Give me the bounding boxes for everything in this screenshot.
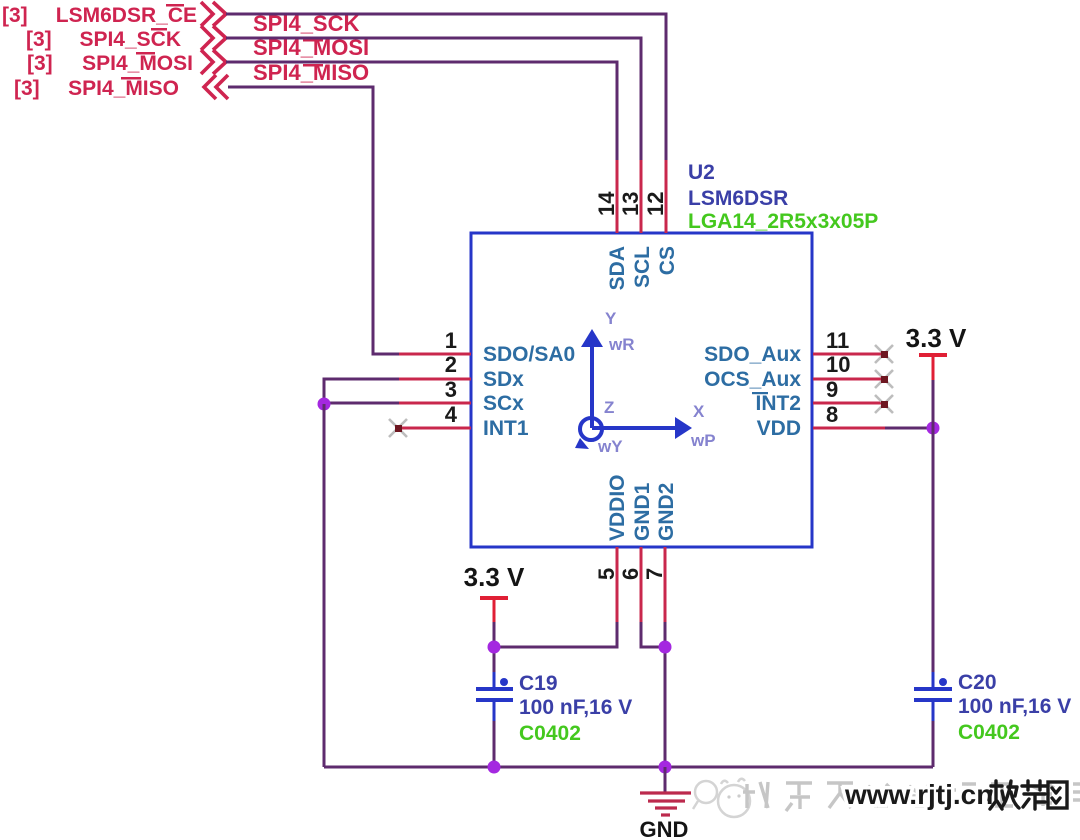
svg-text:6: 6 — [618, 568, 643, 580]
no-connect X pin 9 — [875, 395, 893, 413]
no-connect X pin 11 — [875, 345, 893, 363]
svg-text:INT2: INT2 — [755, 392, 801, 415]
svg-text:12: 12 — [643, 192, 668, 216]
svg-text:5: 5 — [594, 568, 619, 580]
wire SPI4_MOSI to pin 14 — [226, 62, 617, 160]
svg-text:GND2: GND2 — [655, 483, 678, 541]
svg-text:VDD: VDD — [757, 417, 801, 440]
wire bottom bus — [324, 766, 933, 769]
watermark glyph jian — [1022, 781, 1046, 809]
svg-text:9: 9 — [826, 377, 838, 402]
svg-text:[3]: [3] — [2, 4, 28, 27]
wire C20 bottom to bus — [932, 721, 935, 767]
wire SPI4_SCK to pin 13 — [226, 38, 641, 160]
wire pin6 GND1 down-right — [641, 622, 665, 647]
ground symbol — [640, 793, 691, 815]
svg-text:X: X — [693, 402, 705, 421]
watermark faint logo face — [693, 779, 750, 817]
svg-text:SDO/SA0: SDO/SA0 — [483, 343, 575, 366]
power 3.3V right stem — [932, 355, 935, 380]
junction dot VDDIO/3.3V/C19 — [488, 641, 501, 654]
svg-text:SDA: SDA — [606, 246, 629, 290]
svg-text:C0402: C0402 — [958, 721, 1020, 744]
ground stub — [664, 767, 667, 792]
pin 3 SCx stub — [399, 402, 471, 405]
wire pin7 GND2 down to bus — [664, 622, 667, 767]
pin 2 SDx stub — [399, 378, 471, 381]
svg-text:[3]: [3] — [27, 52, 53, 75]
svg-text:100 nF,16 V: 100 nF,16 V — [519, 696, 632, 719]
axis glyph Y arrow — [581, 329, 603, 428]
power 3.3V right bar — [919, 353, 947, 357]
pin 10 OCS_Aux stub — [813, 378, 884, 381]
wire pin5 VDDIO down-left — [494, 622, 617, 647]
wire SPI4_MISO to pin 1 — [228, 87, 400, 354]
pin 8 VDD stub — [813, 427, 885, 430]
pin 11 SDO_Aux stub — [813, 353, 884, 356]
no-connect X pin 10 — [875, 370, 893, 388]
pin 4 INT1 stub — [398, 427, 471, 430]
svg-text:13: 13 — [618, 192, 643, 216]
svg-text:U2: U2 — [688, 161, 715, 184]
svg-text:C20: C20 — [958, 671, 997, 694]
svg-text:7: 7 — [642, 568, 667, 580]
pin 13 SCL stub — [640, 160, 643, 233]
watermark faint gray chinese text — [743, 782, 1080, 811]
svg-text:14: 14 — [594, 191, 619, 216]
junction dot C19 ground — [488, 761, 501, 774]
svg-text:4: 4 — [445, 402, 458, 427]
svg-text:VDDIO: VDDIO — [606, 474, 629, 541]
svg-text:wP: wP — [690, 431, 716, 450]
watermark glyph ruan — [989, 781, 1019, 809]
svg-text:3.3 V: 3.3 V — [464, 562, 525, 592]
junction dot SDx/SCx — [318, 398, 331, 411]
svg-text:[3]: [3] — [14, 77, 40, 100]
no-connect X pin 4 — [389, 419, 407, 437]
wire pin3 SCx to junction — [324, 402, 399, 405]
capacitor C19 — [476, 672, 513, 721]
svg-text:100 nF,16 V: 100 nF,16 V — [958, 695, 1071, 718]
svg-text:[3]: [3] — [26, 28, 52, 51]
watermark glyph wang — [1048, 782, 1067, 808]
svg-text:10: 10 — [826, 352, 850, 377]
svg-text:SPI4_MISO: SPI4_MISO — [68, 77, 179, 100]
wire LSM6DSR_CE to pin 12 — [226, 14, 666, 160]
port [3] SPI4_MISO — [14, 75, 228, 100]
svg-text:1: 1 — [445, 328, 457, 353]
svg-text:SCx: SCx — [483, 392, 524, 415]
wire left riser down — [323, 404, 326, 767]
svg-text:GND: GND — [640, 817, 689, 840]
svg-text:Y: Y — [605, 309, 617, 328]
net label SPI4_MOSI — [253, 35, 369, 60]
svg-text:OCS_Aux: OCS_Aux — [704, 368, 801, 391]
svg-text:11: 11 — [826, 328, 849, 353]
power 3.3V left stem — [493, 598, 496, 622]
svg-text:3: 3 — [445, 377, 457, 402]
wire pin8 VDD to 3.3V rail — [885, 427, 933, 430]
pin 6 GND1 stub — [640, 547, 643, 622]
junction dot VDD rail — [927, 422, 940, 435]
pin 1 SDO/SA0 stub — [399, 353, 471, 356]
pin 7 GND2 stub — [664, 547, 667, 622]
port [3] LSM6DSR_CE — [2, 2, 226, 27]
wire VDD rail down to C20 — [932, 428, 935, 674]
svg-text:LGA14_2R5x3x05P: LGA14_2R5x3x05P — [688, 210, 878, 233]
svg-text:SDO_Aux: SDO_Aux — [704, 343, 801, 366]
wire 3.3V right down to junction — [932, 380, 935, 428]
op-amp U1 chip body U2 — [471, 233, 812, 547]
svg-text:3.3 V: 3.3 V — [906, 323, 967, 353]
svg-text:SCL: SCL — [631, 246, 654, 288]
wire pin2 SDx to left riser — [324, 379, 399, 404]
svg-text:2: 2 — [445, 352, 457, 377]
svg-text:8: 8 — [826, 402, 838, 427]
pin 9 INT2 stub — [813, 402, 884, 405]
pin 5 VDDIO stub — [616, 547, 619, 622]
axis glyph Z rotation circle — [575, 418, 602, 449]
pin 12 CS stub — [665, 160, 668, 233]
svg-text:wR: wR — [608, 335, 635, 354]
svg-text:INT1: INT1 — [483, 417, 529, 440]
svg-text:SPI4_MISO: SPI4_MISO — [253, 60, 369, 85]
svg-text:CS: CS — [656, 246, 679, 275]
axis glyph X arrow — [592, 417, 692, 439]
svg-text:Z: Z — [604, 398, 614, 417]
wire C19 bottom to bus — [493, 721, 496, 767]
svg-text:LSM6DSR: LSM6DSR — [688, 187, 788, 210]
pin name INT2 — [752, 392, 801, 415]
net label SPI4_MISO — [253, 60, 369, 85]
pin 14 SDA stub — [616, 160, 619, 233]
wire 3.3V to junction — [493, 622, 496, 674]
svg-text:wY: wY — [597, 437, 623, 456]
junction dot GND1/GND2 — [659, 641, 672, 654]
capacitor C20 — [914, 672, 952, 721]
svg-text:SPI4_MOSI: SPI4_MOSI — [82, 52, 193, 75]
svg-text:C0402: C0402 — [519, 722, 581, 745]
port [3] SPI4_SCK — [26, 26, 226, 51]
junction dot ground bus — [659, 761, 672, 774]
svg-text:SDx: SDx — [483, 368, 524, 391]
svg-text:www.rjtj.cn: www.rjtj.cn — [844, 779, 993, 810]
power 3.3V left bar — [480, 596, 508, 600]
svg-text:C19: C19 — [519, 672, 558, 695]
port [3] SPI4_MOSI — [27, 50, 226, 75]
svg-text:GND1: GND1 — [631, 482, 654, 541]
svg-text:LSM6DSR_CE: LSM6DSR_CE — [56, 4, 197, 27]
svg-text:SPI4_SCK: SPI4_SCK — [79, 28, 181, 51]
